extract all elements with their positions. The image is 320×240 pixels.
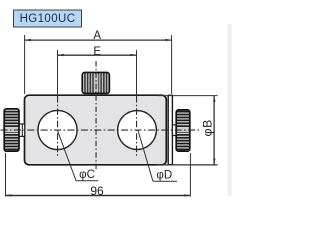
svg-text:96: 96	[90, 184, 104, 198]
svg-text:φD: φD	[156, 170, 172, 182]
leader phiC	[58, 131, 99, 181]
hole D (right circle)	[118, 111, 157, 150]
hole C (left circle)	[38, 110, 77, 149]
right shaft	[172, 125, 176, 136]
dimension E line	[58, 54, 137, 56]
vertical centerline (top knob axis)	[95, 61, 97, 171]
hole C centerline	[57, 96, 59, 158]
dimension phiB extension lines	[157, 95, 218, 97]
leader phiD	[138, 131, 177, 182]
dimension phiB line	[213, 96, 215, 165]
svg-text:φC: φC	[79, 169, 95, 181]
dimension 96 extension lines	[5, 153, 7, 197]
dimension A line	[25, 39, 172, 41]
hole D centerline	[136, 96, 138, 158]
faint scrollbar band right edge	[228, 24, 232, 196]
right knob (knurled)	[176, 110, 190, 151]
dimension A extension lines	[24, 35, 26, 94]
label box HG100UC	[14, 10, 82, 27]
svg-text:HG100UC: HG100UC	[20, 13, 76, 25]
left knob (knurled)	[4, 109, 19, 151]
top knob (knurled)	[82, 72, 109, 93]
horizontal centerline	[1, 129, 200, 131]
dimension E extension lines	[57, 50, 59, 96]
svg-text:φB: φB	[200, 119, 214, 136]
svg-text:A: A	[93, 30, 101, 42]
svg-text:E: E	[93, 46, 101, 58]
dimension 96 line	[6, 194, 191, 196]
left shaft	[19, 124, 25, 136]
body block	[25, 95, 167, 165]
top shaft	[92, 93, 101, 95]
end plate (flange) right of slit	[168, 95, 172, 164]
